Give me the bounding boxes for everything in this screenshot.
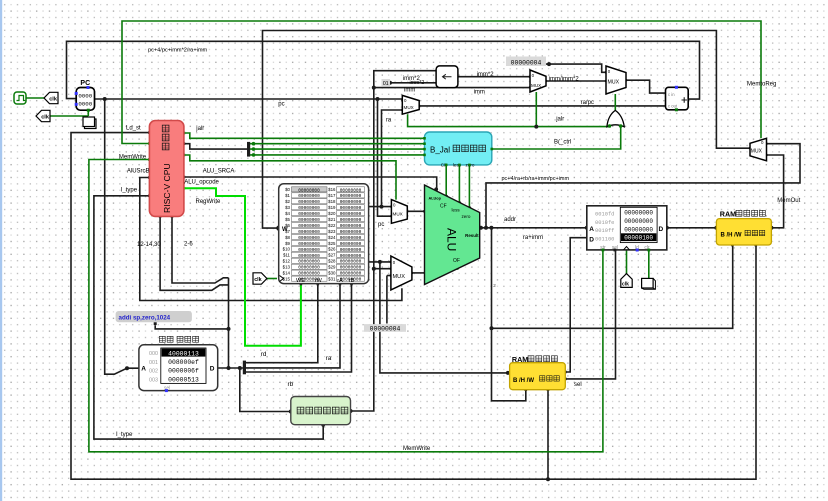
svg-text:rB: rB [349, 278, 355, 284]
svg-text:$22: $22 [328, 223, 336, 228]
svg-text:001: 001 [149, 360, 158, 366]
svg-text:00000000: 00000000 [298, 205, 320, 211]
svg-text:AlUSrcB: AlUSrcB [127, 169, 150, 175]
svg-text:$27: $27 [328, 253, 336, 258]
svg-text:addr: addr [504, 217, 516, 223]
svg-text:addi sp,zero,1024: addi sp,zero,1024 [119, 315, 171, 322]
svg-text:$23: $23 [328, 229, 336, 234]
svg-text:00000100: 00000100 [624, 235, 653, 242]
svg-text:00000000: 00000000 [298, 223, 320, 229]
svg-text:c in: c in [668, 92, 675, 97]
svg-text:rd: rd [261, 351, 267, 358]
svg-text:MUX: MUX [393, 274, 406, 280]
svg-text:$15: $15 [283, 276, 291, 281]
svg-text:I_type: I_type [121, 188, 138, 194]
svg-text:$5: $5 [285, 217, 290, 222]
svg-text:00000000: 00000000 [340, 241, 362, 247]
svg-text:2-6: 2-6 [184, 242, 193, 248]
svg-text:RAM: RAM [512, 355, 528, 364]
svg-text:$17: $17 [328, 193, 336, 198]
svg-text:00000000: 00000000 [298, 193, 320, 199]
svg-text:00000000: 00000000 [298, 271, 320, 277]
svg-text:00000000: 00000000 [340, 193, 362, 199]
svg-text:CF: CF [440, 204, 447, 210]
svg-text:0010fe: 0010fe [595, 220, 614, 226]
svg-text:$4: $4 [285, 211, 290, 216]
svg-text:0000: 0000 [78, 101, 92, 108]
svg-text:imm*2: imm*2 [410, 80, 425, 86]
svg-text:$29: $29 [328, 265, 336, 270]
svg-text:$18: $18 [328, 199, 336, 204]
svg-text:00000513: 00000513 [168, 376, 199, 383]
svg-text:0010fd: 0010fd [595, 212, 614, 218]
svg-text:rb: rb [288, 381, 294, 388]
svg-text:less: less [452, 208, 461, 213]
svg-text:00000000: 00000000 [298, 253, 320, 259]
svg-text:00000000: 00000000 [340, 223, 362, 229]
svg-text:OF: OF [453, 258, 460, 264]
svg-text:zero: zero [462, 214, 471, 219]
svg-text:00000000: 00000000 [340, 211, 362, 217]
svg-text:Ld_st: Ld_st [126, 126, 141, 132]
svg-text:rW: rW [315, 278, 323, 284]
svg-text:pc+4/ra+rb/ra+imm/pc+imm: pc+4/ra+rb/ra+imm/pc+imm [502, 176, 570, 182]
svg-text:$9: $9 [285, 241, 290, 246]
svg-text:ALU: ALU [445, 228, 459, 251]
svg-text:imm*2: imm*2 [477, 72, 495, 78]
svg-text:12-14,30: 12-14,30 [137, 242, 161, 248]
svg-text:40000113: 40000113 [168, 350, 199, 357]
svg-text:$31: $31 [328, 276, 336, 281]
svg-text:RISC-V CPU: RISC-V CPU [162, 163, 172, 213]
svg-text:00000000: 00000000 [298, 217, 320, 223]
svg-text:002: 002 [149, 369, 158, 375]
svg-text:MUX: MUX [751, 149, 763, 155]
svg-text:I_type: I_type [116, 432, 133, 438]
svg-text:RegWrite: RegWrite [196, 199, 222, 205]
svg-text:clk: clk [622, 281, 629, 287]
svg-text:WE: WE [296, 278, 305, 284]
svg-text:$10: $10 [283, 247, 291, 252]
svg-text:003: 003 [149, 377, 158, 383]
svg-text:MUX: MUX [404, 105, 414, 110]
svg-text:A: A [589, 226, 594, 233]
svg-text:00000000: 00000000 [340, 271, 362, 277]
svg-text:ALUop: ALUop [429, 196, 442, 200]
svg-text:00000000: 00000000 [298, 247, 320, 253]
svg-text:00000000: 00000000 [340, 199, 362, 205]
svg-text:sel: sel [574, 382, 582, 388]
svg-text:000: 000 [149, 351, 158, 357]
svg-text:MUX: MUX [608, 80, 620, 86]
svg-text:jalr: jalr [195, 126, 204, 132]
svg-text:00000000: 00000000 [340, 265, 362, 271]
svg-text:0000: 0000 [78, 93, 92, 100]
svg-text:$21: $21 [328, 217, 336, 222]
svg-text:$16: $16 [328, 187, 336, 192]
svg-text:00000000: 00000000 [624, 226, 653, 233]
svg-text:00000000: 00000000 [340, 253, 362, 259]
svg-text:$30: $30 [328, 271, 336, 276]
svg-text:$3: $3 [285, 205, 290, 210]
svg-text:pc: pc [378, 222, 384, 228]
svg-text:00000000: 00000000 [298, 235, 320, 241]
svg-text:$28: $28 [328, 259, 336, 264]
svg-text:MemOut: MemOut [777, 198, 800, 204]
svg-text:$24: $24 [328, 235, 336, 240]
svg-text:MUX: MUX [531, 83, 541, 88]
svg-text:MemtoReg: MemtoReg [747, 82, 776, 88]
svg-text:00000000: 00000000 [340, 229, 362, 235]
svg-text:PC: PC [80, 80, 90, 87]
svg-text:$11: $11 [283, 253, 291, 258]
svg-text:$19: $19 [328, 205, 336, 210]
svg-text:$12: $12 [283, 259, 291, 264]
svg-text:D: D [589, 236, 594, 243]
svg-text:2: 2 [493, 283, 496, 288]
svg-text:00000000: 00000000 [298, 259, 320, 265]
svg-text:jalr: jalr [555, 116, 564, 122]
svg-text:B_Jal: B_Jal [430, 145, 450, 154]
svg-text:A: A [141, 366, 146, 373]
svg-text:$13: $13 [283, 265, 291, 270]
svg-text:c out: c out [668, 104, 678, 109]
svg-text:$1: $1 [285, 193, 290, 198]
svg-text:imm/imm*2: imm/imm*2 [549, 76, 580, 82]
svg-text:00000000: 00000000 [298, 187, 320, 193]
svg-text:ra+imm: ra+imm [523, 235, 543, 241]
svg-text:ALU_opcode: ALU_opcode [184, 179, 219, 185]
svg-text:00000000: 00000000 [624, 218, 653, 225]
svg-text:$8: $8 [285, 235, 290, 240]
svg-text:$26: $26 [328, 247, 336, 252]
svg-text:00000000: 00000000 [340, 235, 362, 241]
svg-text:001100: 001100 [595, 236, 614, 242]
svg-text:008000ef: 008000ef [168, 359, 199, 366]
svg-text:RAM: RAM [720, 209, 736, 218]
svg-text:00000004: 00000004 [370, 326, 401, 333]
svg-text:pc: pc [278, 102, 284, 108]
svg-text:clk: clk [41, 114, 50, 120]
svg-text:ra/pc: ra/pc [581, 100, 594, 106]
svg-text:00000000: 00000000 [298, 229, 320, 235]
svg-text:0000006f: 0000006f [168, 368, 199, 375]
svg-text:00000004: 00000004 [511, 59, 542, 66]
svg-text:pc+4/pc+imm*2/ra+imm: pc+4/pc+imm*2/ra+imm [148, 48, 208, 54]
svg-text:ALU_SRCA: ALU_SRCA [203, 169, 235, 175]
svg-text:imm: imm [474, 90, 485, 96]
svg-text:$14: $14 [283, 271, 291, 276]
svg-text:00000000: 00000000 [298, 265, 320, 271]
svg-text:MemWrite: MemWrite [119, 154, 147, 160]
svg-text:00000000: 00000000 [298, 241, 320, 247]
svg-text:$20: $20 [328, 211, 336, 216]
svg-text:imm: imm [404, 88, 415, 94]
svg-text:B /H /W: B /H /W [721, 232, 742, 238]
svg-text:D: D [659, 226, 664, 233]
svg-text:B /H /W: B /H /W [513, 378, 534, 384]
svg-text:00000000: 00000000 [340, 217, 362, 223]
svg-text:B(_ctrl: B(_ctrl [554, 140, 571, 146]
svg-text:MemWrite: MemWrite [403, 446, 431, 452]
svg-text:00000000: 00000000 [624, 210, 653, 217]
svg-text:00000000: 00000000 [340, 205, 362, 211]
svg-text:00000000: 00000000 [298, 211, 320, 217]
svg-text:Result: Result [465, 233, 479, 238]
svg-text:clk: clk [49, 96, 58, 102]
svg-text:ra: ra [386, 117, 392, 123]
svg-text:00000000: 00000000 [298, 199, 320, 205]
svg-text:$2: $2 [285, 199, 290, 204]
svg-text:MUX: MUX [393, 211, 403, 216]
svg-text:01: 01 [383, 81, 389, 87]
svg-text:clk: clk [254, 277, 262, 283]
svg-text:D: D [210, 366, 215, 373]
svg-text:00000000: 00000000 [340, 187, 362, 193]
svg-text:$25: $25 [328, 241, 336, 246]
svg-text:00000000: 00000000 [340, 247, 362, 253]
svg-text:rA: rA [337, 278, 343, 284]
svg-text:00000000: 00000000 [340, 259, 362, 265]
svg-text:ra: ra [326, 355, 332, 362]
svg-text:$0: $0 [285, 187, 290, 192]
svg-text:0010ff: 0010ff [595, 228, 614, 234]
svg-text:W: W [282, 227, 288, 233]
